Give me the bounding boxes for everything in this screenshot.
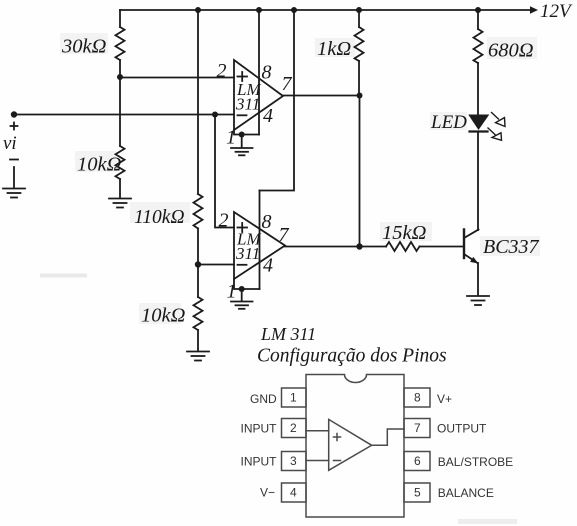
pin 4 box bbox=[282, 483, 307, 502]
svg-text:5: 5 bbox=[414, 486, 421, 500]
wire vi node down to U2 + input (pin 2) bbox=[215, 115, 234, 228]
svg-text:vi: vi bbox=[3, 133, 17, 154]
pin 8 box bbox=[404, 388, 430, 407]
wire Q1 collector bbox=[477, 133, 479, 230]
pin 6 box bbox=[404, 452, 430, 471]
svg-text:Configuração dos Pinos: Configuração dos Pinos bbox=[257, 346, 447, 367]
svg-text:2: 2 bbox=[217, 60, 227, 82]
resistor 15k bbox=[380, 222, 432, 251]
svg-text:2: 2 bbox=[219, 210, 229, 232]
junction U1 output node bbox=[357, 93, 363, 99]
svg-text:4: 4 bbox=[263, 255, 273, 277]
svg-text:BC337: BC337 bbox=[483, 236, 540, 258]
svg-text:V+: V+ bbox=[437, 392, 452, 406]
junction base node bbox=[356, 243, 362, 249]
svg-text:7: 7 bbox=[414, 421, 421, 435]
wire U2 pin8/pin4 vertical bbox=[259, 191, 261, 290]
resistor 680 bbox=[474, 29, 538, 63]
wire U2 V+ from rail bbox=[260, 10, 295, 191]
wire 15k to Q1 base bbox=[420, 246, 464, 248]
wire U1 ground stem bbox=[241, 135, 243, 148]
svg-text:1kΩ: 1kΩ bbox=[317, 38, 351, 60]
svg-text:INPUT: INPUT bbox=[241, 421, 278, 435]
wire U1 pin 1 to ground node bbox=[234, 130, 259, 135]
junction rail/1k bbox=[356, 7, 362, 13]
wire vi source to ground bbox=[13, 167, 15, 188]
wire Q1 emitter to ground bbox=[477, 263, 479, 295]
wire vi line to U1 - input bbox=[14, 114, 234, 116]
svg-text:311: 311 bbox=[235, 95, 260, 114]
wire 1k to U1 output node bbox=[358, 61, 360, 96]
resistor 10k (left) bbox=[75, 146, 125, 179]
resistor 30k bbox=[60, 27, 125, 60]
resistor 10k (bottom) bbox=[139, 297, 203, 330]
svg-text:10kΩ: 10kΩ bbox=[141, 305, 186, 327]
pin 7 box bbox=[404, 419, 430, 438]
wire divider node down to 10k bbox=[119, 77, 121, 146]
svg-text:7: 7 bbox=[282, 73, 293, 95]
svg-text:680Ω: 680Ω bbox=[488, 40, 534, 62]
junction U2 ground node bbox=[239, 286, 245, 292]
svg-text:12V: 12V bbox=[540, 1, 573, 22]
wire DIP output to pin 7 bbox=[372, 429, 404, 445]
scan smudge left bbox=[40, 274, 87, 278]
svg-text:4: 4 bbox=[263, 105, 273, 127]
svg-text:2: 2 bbox=[290, 421, 297, 435]
DIP-8 package diagram bbox=[241, 375, 514, 518]
wire output node down to base node bbox=[359, 96, 361, 247]
svg-text:INPUT: INPUT bbox=[241, 454, 278, 468]
pin 5 box bbox=[404, 483, 430, 502]
scan smudge bottom right bbox=[458, 519, 517, 524]
junction vi node bbox=[212, 112, 218, 118]
ground U1 bbox=[231, 148, 253, 155]
pin 3 box bbox=[282, 452, 307, 471]
wire U2 pin 1 to ground node bbox=[234, 279, 260, 289]
LED D1 bbox=[430, 112, 489, 133]
svg-text:311: 311 bbox=[235, 244, 260, 263]
junction U1 ground node bbox=[239, 132, 245, 138]
wire rail down to 680 bbox=[477, 10, 479, 29]
wire rail down to 110k feed bbox=[197, 10, 199, 194]
svg-text:1: 1 bbox=[227, 281, 237, 303]
ground Q1 bbox=[467, 296, 489, 305]
svg-text:LED: LED bbox=[430, 112, 467, 133]
svg-text:LM 311: LM 311 bbox=[260, 324, 316, 344]
svg-text:110kΩ: 110kΩ bbox=[134, 207, 185, 228]
junction rail/110k feed bbox=[195, 7, 201, 13]
pin 1 box bbox=[282, 388, 307, 407]
wire ref node down to 10k bbox=[197, 265, 199, 298]
ground (left divider) bbox=[109, 199, 131, 208]
junction rail/U2 V+ bbox=[291, 7, 297, 13]
input terminal vi bbox=[3, 111, 18, 159]
op-amp U1 LM311 bbox=[234, 60, 283, 130]
svg-text:3: 3 bbox=[290, 454, 297, 468]
svg-text:8: 8 bbox=[262, 61, 272, 83]
IC body DIP-8 bbox=[306, 375, 404, 518]
op-amp symbol inside DIP bbox=[329, 419, 372, 470]
svg-text:1: 1 bbox=[290, 391, 297, 405]
LED light arrow 1 bbox=[492, 113, 506, 127]
svg-text:BALANCE: BALANCE bbox=[438, 486, 494, 500]
pin 2 box bbox=[282, 419, 307, 438]
wire ref node to U2 - input (pin 3) bbox=[198, 264, 234, 266]
svg-text:15kΩ: 15kΩ bbox=[382, 222, 427, 244]
wire U2 ground stem bbox=[241, 289, 243, 301]
svg-text:BAL/STROBE: BAL/STROBE bbox=[438, 455, 513, 469]
LED light arrow 2 bbox=[488, 128, 502, 140]
ground (bottom 10k) bbox=[187, 352, 209, 361]
wire rail down to 30k bbox=[119, 10, 121, 27]
junction rail/680 bbox=[475, 7, 481, 13]
wire 10k to ground bbox=[119, 179, 121, 198]
svg-text:10kΩ: 10kΩ bbox=[77, 154, 122, 176]
transistor Q1 BC337 bbox=[464, 230, 540, 264]
junction divider node A bbox=[117, 74, 123, 80]
junction rail/U1 pin8 bbox=[256, 7, 262, 13]
wire DIP pin2 to + input bbox=[306, 430, 329, 432]
svg-text:4: 4 bbox=[290, 486, 297, 500]
wire DIP pin3 to - input bbox=[306, 460, 329, 462]
svg-text:30kΩ: 30kΩ bbox=[61, 36, 107, 58]
svg-text:6: 6 bbox=[414, 454, 421, 468]
svg-text:GND: GND bbox=[250, 392, 277, 406]
wire U1 pin8/pin4 vertical (rail to ground node) bbox=[258, 10, 260, 135]
wire U1 output (pin 7) to 1k node bbox=[283, 95, 360, 97]
wire 30k to divider node bbox=[119, 60, 121, 77]
ground (vi source) bbox=[3, 189, 25, 198]
svg-text:8: 8 bbox=[262, 211, 272, 233]
12V arrowhead bbox=[530, 6, 538, 14]
wire 680 to LED anode bbox=[477, 63, 479, 115]
wire 110k to ref node bbox=[197, 229, 199, 265]
svg-text:7: 7 bbox=[279, 224, 290, 246]
wire 10k to ground bbox=[197, 330, 199, 351]
wire +12V supply rail bbox=[120, 9, 531, 11]
wire rail down to 1k bbox=[358, 10, 360, 27]
wire base node to 15k bbox=[360, 246, 387, 248]
svg-text:8: 8 bbox=[414, 391, 421, 405]
resistor 1k bbox=[315, 27, 364, 61]
wire divider node to U1 + input (pin 2) bbox=[120, 77, 234, 79]
wire U2 output (pin 7) to base node bbox=[285, 246, 360, 248]
junction ref node B bbox=[195, 261, 201, 267]
op-amp U2 LM311 bbox=[234, 212, 285, 279]
svg-text:OUTPUT: OUTPUT bbox=[437, 422, 487, 436]
resistor 110k bbox=[130, 194, 203, 229]
svg-text:V−: V− bbox=[260, 486, 275, 500]
ground U2 bbox=[231, 302, 253, 309]
